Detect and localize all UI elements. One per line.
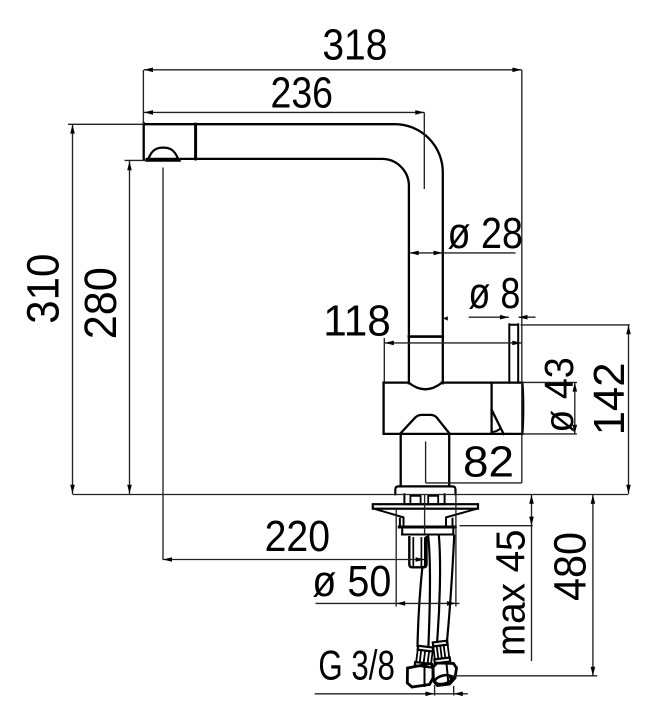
ext right G38 — [453, 686, 455, 696]
hose 2 left edge — [437, 536, 440, 642]
arrow max45 bottom — [529, 517, 534, 526]
arrow o8 left pointing right — [500, 315, 509, 320]
svg-text:ø 8: ø 8 — [468, 269, 520, 318]
dim line 280 — [129, 161, 131, 494]
arrow 118 left — [385, 341, 394, 346]
arrow max45 top — [529, 495, 534, 504]
arrow 236 left — [144, 110, 153, 115]
washer below nut — [402, 529, 454, 535]
svg-text:ø 28: ø 28 — [448, 209, 524, 258]
aerator dome — [148, 148, 178, 160]
dim line 310 — [72, 124, 74, 494]
arrow G38 right pointing left — [454, 692, 463, 697]
body right cylinder edge — [490, 383, 492, 433]
dim line 142 — [628, 325, 630, 494]
nut top band — [399, 525, 455, 528]
left nut facet — [424, 665, 426, 687]
svg-text:310: 310 — [17, 254, 68, 324]
aerator centerline — [162, 168, 164, 560]
arrow 280 top — [127, 161, 132, 170]
svg-text:280: 280 — [75, 267, 126, 339]
ext top 142 — [521, 324, 630, 326]
ext top 310 — [68, 123, 144, 125]
ext left 318/236 — [142, 70, 144, 124]
body top dip arc — [409, 383, 442, 389]
svg-text:118: 118 — [323, 297, 391, 346]
svg-text:ø 50: ø 50 — [312, 558, 391, 606]
ext right 318 down to 82 — [521, 70, 523, 483]
ext left 118 — [383, 338, 385, 382]
body left edge — [382, 383, 384, 434]
handle rod — [509, 324, 518, 382]
body bottom edge — [384, 433, 523, 435]
body bottom tent — [400, 415, 450, 434]
spout left end cap — [143, 123, 145, 160]
arrow 142 bottom — [626, 485, 631, 494]
svg-text:220: 220 — [265, 512, 330, 561]
handle wedge diagonal — [492, 410, 504, 434]
handle bottom arc — [492, 429, 501, 432]
arrow 220 right — [416, 557, 425, 562]
body top edge — [384, 381, 523, 383]
svg-text:318: 318 — [322, 20, 387, 69]
arrow 142 top — [626, 325, 631, 334]
right nut facet — [447, 664, 449, 685]
arrow 310 top — [70, 125, 75, 134]
hose 2 right edge — [447, 536, 454, 642]
svg-text:G 3/8: G 3/8 — [318, 641, 395, 688]
arrow 310 bottom — [70, 485, 75, 494]
body centerline upper — [425, 442, 427, 483]
ext right 236 — [423, 112, 425, 189]
ext bottom 480 — [452, 675, 597, 677]
plate left step — [374, 509, 404, 526]
spline boxes — [410, 496, 438, 504]
arrow 118 right — [512, 341, 521, 346]
ext right o50 — [455, 495, 457, 607]
aerator base line — [147, 159, 179, 162]
arrow o43 bottom — [573, 425, 578, 434]
arrow 480 top — [591, 495, 596, 504]
left hex nut — [407, 664, 433, 688]
arrow o28 right — [434, 251, 443, 256]
hose crimp stub — [409, 537, 426, 567]
tube joint line — [409, 335, 443, 338]
arrow o28 left — [410, 251, 419, 256]
dim line o43 — [574, 383, 576, 434]
svg-text:480: 480 — [544, 532, 595, 601]
hose 1 left edge — [418, 567, 423, 646]
spout horizontal tube top edge and bend outer — [144, 124, 443, 383]
dim line 480 — [592, 495, 594, 676]
ext left G38 — [434, 685, 436, 696]
ext top o43 — [523, 381, 577, 383]
arrow 236 right — [415, 110, 424, 115]
arrow 318 right — [512, 68, 521, 73]
dim line o8 right — [519, 316, 536, 318]
right nut shadow blob — [449, 675, 454, 680]
svg-text:82: 82 — [463, 438, 514, 487]
ext left o50 — [395, 509, 397, 607]
svg-text:236: 236 — [271, 69, 334, 118]
dim line max45 — [531, 495, 533, 661]
arrow o8 right pointing left — [519, 315, 528, 320]
base flange above counter — [395, 486, 455, 494]
left ferrule — [415, 646, 434, 668]
arrow 480 bottom — [591, 667, 596, 676]
arrow 318 left — [144, 68, 153, 73]
mounting plate — [373, 504, 478, 509]
arrow o50 left — [396, 601, 405, 606]
arrow o50 right — [447, 601, 456, 606]
arrow G38 left pointing right — [425, 692, 434, 697]
right ferrule — [432, 641, 450, 664]
hose 1 right edge — [428, 536, 430, 646]
spout bottom edge and bend inner — [147, 159, 409, 384]
svg-text:max 45: max 45 — [488, 530, 534, 657]
dim line o28 with leader — [410, 252, 516, 254]
svg-text:142: 142 — [585, 362, 634, 435]
ext top 280 — [125, 159, 147, 161]
counter line — [73, 494, 629, 496]
shank column — [401, 434, 450, 486]
body centerline lower — [424, 494, 426, 534]
arrow 280 bottom — [127, 485, 132, 494]
dim line o8 left — [469, 316, 509, 318]
right nut opening ellipse — [434, 674, 453, 686]
arrow o43 top — [573, 383, 578, 392]
right hex nut — [433, 663, 457, 686]
stray arrow at tube right edge — [443, 316, 448, 320]
arrow 220 left — [163, 557, 172, 562]
dim line 318 — [144, 69, 522, 71]
ext bottom o43 — [523, 433, 577, 435]
spout end separator line — [194, 124, 197, 159]
stub ridges — [413, 538, 425, 566]
plate right step — [446, 509, 477, 526]
ext bottom max45 — [460, 525, 533, 527]
dim line 236 — [144, 111, 424, 113]
svg-text:ø 43: ø 43 — [536, 357, 582, 433]
dim line 82 — [426, 482, 522, 484]
dim line 118 — [385, 342, 522, 344]
handle right edge — [521, 383, 524, 434]
dim line o50 — [316, 602, 460, 604]
spline section outer — [404, 494, 444, 504]
dim line 220 — [163, 559, 425, 561]
dim line G38 — [315, 693, 468, 695]
